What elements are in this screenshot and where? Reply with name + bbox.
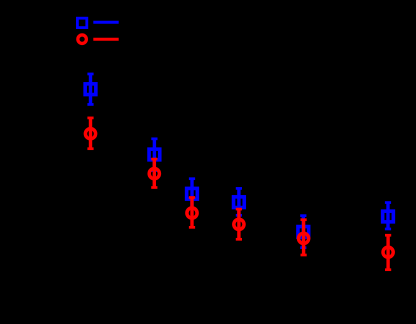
blue point 6 error bar: [385, 203, 391, 229]
blue point 3 square marker: [187, 188, 198, 199]
blue point 1 square marker: [85, 84, 96, 95]
legend red circle marker: [78, 35, 87, 44]
red point 2 circle marker: [149, 169, 159, 179]
red point 1 circle marker: [85, 129, 95, 139]
legend red line: [93, 38, 118, 41]
red point 6 circle marker: [383, 247, 393, 257]
blue point 4 error bar: [236, 188, 242, 215]
blue point 1 error bar: [87, 74, 93, 105]
blue point 2 square marker: [149, 149, 160, 160]
blue point 4 square marker: [234, 197, 245, 208]
red point 3 error bar: [189, 198, 195, 228]
red point 3 circle marker: [187, 208, 197, 218]
blue point 5 error bar: [300, 216, 306, 248]
red point 5 error bar: [301, 220, 307, 255]
legend blue square marker: [77, 18, 86, 27]
red point 4 error bar: [236, 209, 242, 239]
blue point 3 error bar: [189, 179, 195, 209]
red point 2 error bar: [151, 159, 157, 187]
red point 4 circle marker: [234, 219, 244, 229]
blue point 6 square marker: [383, 211, 394, 222]
red point 6 error bar: [385, 235, 391, 269]
red point 1 error bar: [87, 118, 93, 149]
blue point 2 error bar: [151, 139, 157, 171]
red point 5 circle marker: [299, 233, 309, 243]
legend blue line: [93, 21, 118, 24]
red data series: [85, 118, 393, 270]
blue data series: [85, 74, 393, 248]
blue point 5 square marker: [298, 227, 309, 238]
